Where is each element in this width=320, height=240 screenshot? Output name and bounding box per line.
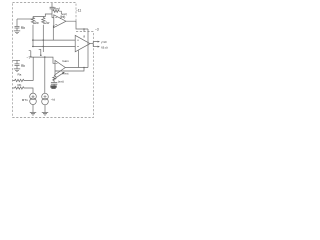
resistor R2 (vertical) bbox=[42, 17, 45, 25]
svg-text:2w: 2w bbox=[45, 21, 50, 25]
input bus B wire bbox=[32, 45, 76, 47]
probe arrow P1 bbox=[29, 51, 32, 58]
svg-text:~3: ~3 bbox=[95, 27, 99, 31]
svg-text:~11: ~11 bbox=[76, 9, 82, 13]
svg-text:MT1: MT1 bbox=[22, 98, 28, 102]
svg-text:(int): (int) bbox=[60, 15, 66, 19]
source MT2 (double circle) bbox=[42, 93, 49, 105]
node (U2 fb junction) bbox=[83, 67, 85, 69]
wire (U1 output to top-right corner path) bbox=[66, 21, 88, 29]
wire (R2 top step to Cref node) bbox=[43, 14, 52, 17]
op-amp U2 bbox=[55, 60, 65, 74]
gain-adjust arrow across U2 bbox=[53, 72, 65, 80]
wire (Ra right end up column) bbox=[32, 57, 34, 81]
svg-text:Rb: Rb bbox=[18, 83, 22, 87]
svg-text:Rb: Rb bbox=[21, 26, 25, 30]
wire (U3 lower vertical link) bbox=[77, 50, 79, 67]
node B1 bbox=[32, 46, 34, 48]
wire (U1 + input column down to bus A) bbox=[53, 26, 54, 40]
svg-text:f.B.d.t: f.B.d.t bbox=[101, 45, 108, 49]
wire (feedback drop to op2 output node) bbox=[87, 29, 89, 68]
op-amp U1 bbox=[54, 15, 66, 28]
capacitor Cref (from top border) bbox=[50, 3, 55, 18]
svg-text:8: 8 bbox=[83, 35, 85, 39]
node (gain pin junction) bbox=[83, 28, 85, 30]
node (MT2 column junction) bbox=[44, 56, 46, 58]
wire (MT2 column from mid wire) bbox=[44, 57, 46, 93]
resistor Rref (feedback, horizontal zigzag) bbox=[53, 10, 62, 14]
capacitor C2 (lower-left to ground) bbox=[13, 60, 21, 68]
svg-text:~7: ~7 bbox=[27, 56, 31, 60]
svg-text:y=d=: y=d= bbox=[101, 40, 107, 44]
wire (R1 column down) bbox=[32, 25, 34, 47]
svg-text:~Id: ~Id bbox=[51, 97, 56, 101]
wire (Cref node into U1 inverting input) bbox=[52, 17, 54, 19]
probe arrow P2 bbox=[39, 49, 42, 56]
ground (below C2) bbox=[14, 69, 20, 72]
input bus A wire bbox=[32, 39, 76, 41]
resistor Rb (horizontal) bbox=[13, 87, 33, 93]
ground (dark bar below C3) bbox=[50, 86, 56, 88]
svg-text:2w: 2w bbox=[35, 21, 40, 25]
svg-text:Rext: Rext bbox=[62, 71, 68, 75]
resistor R3 (vertical, below U2) bbox=[53, 75, 56, 82]
node A1 bbox=[32, 39, 34, 41]
ground (below C1) bbox=[14, 31, 20, 34]
resistor R1 (vertical) bbox=[31, 17, 34, 24]
node A2 bbox=[43, 39, 45, 41]
resistor Ra (horizontal) bbox=[13, 79, 34, 81]
svg-text:Rref: Rref bbox=[54, 7, 60, 11]
svg-text:(ext): (ext) bbox=[58, 79, 64, 83]
svg-text:Ra: Ra bbox=[18, 73, 22, 77]
wire (R1 top to R2 top) bbox=[33, 17, 44, 20]
output arrow 1 bbox=[93, 41, 100, 47]
wire (U2 output line) bbox=[65, 67, 88, 69]
ground (MT1) bbox=[30, 112, 36, 115]
dashed enclosure border bbox=[13, 3, 94, 118]
wire (MT2 to ground) bbox=[44, 105, 46, 112]
svg-text:Gain: Gain bbox=[62, 59, 69, 63]
capacitor C1 (top-left, to ground) bbox=[15, 19, 20, 31]
wire (MT1 to ground) bbox=[32, 105, 34, 113]
op-amp U3 (main) bbox=[75, 35, 90, 51]
wire (U2 feedback loop) bbox=[55, 68, 84, 72]
capacitor C3 (below R3) bbox=[51, 81, 57, 85]
source MT1 (double circle) bbox=[30, 93, 37, 105]
node B2 bbox=[43, 46, 45, 48]
svg-text:Rb: Rb bbox=[21, 64, 25, 68]
ground (MT2) bbox=[42, 112, 48, 115]
wire (U3 output) bbox=[90, 43, 93, 45]
wire (gain pin into U3 top) bbox=[83, 29, 85, 32]
wire (C1 node to R1 top) bbox=[17, 18, 33, 20]
wire (R2 column down to mid wire) bbox=[42, 25, 44, 52]
output arrow 2 bbox=[93, 46, 100, 48]
mid wire to R3 bbox=[31, 57, 55, 63]
